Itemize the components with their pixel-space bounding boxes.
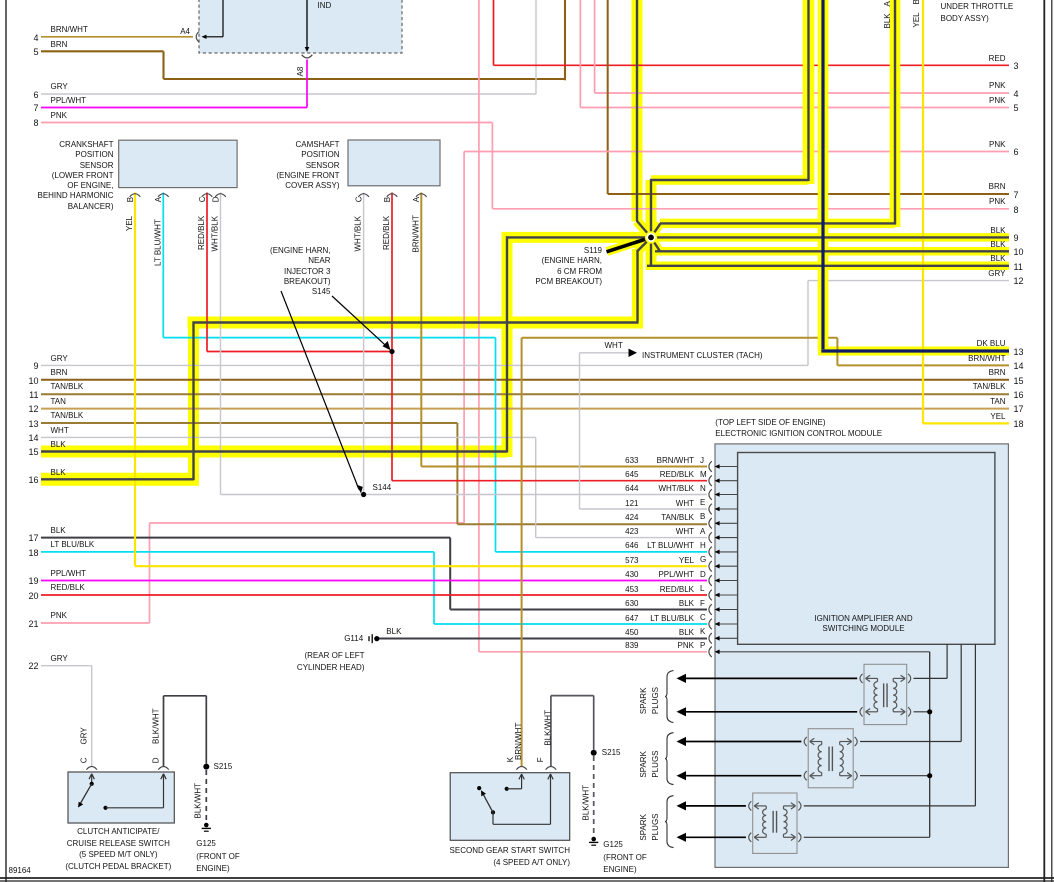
svg-text:BLK/WHT: BLK/WHT bbox=[193, 783, 202, 819]
svg-text:SPARK: SPARK bbox=[639, 813, 648, 840]
svg-text:RED/BLK: RED/BLK bbox=[197, 215, 206, 250]
svg-text:A: A bbox=[883, 1, 892, 7]
svg-text:BLK/WHT: BLK/WHT bbox=[581, 785, 590, 821]
svg-text:A8: A8 bbox=[296, 66, 305, 76]
svg-text:GRY: GRY bbox=[80, 727, 89, 745]
svg-text:B: B bbox=[383, 197, 392, 202]
svg-text:F: F bbox=[536, 757, 545, 762]
svg-text:PLUGS: PLUGS bbox=[651, 687, 660, 714]
svg-text:SPARK: SPARK bbox=[639, 687, 648, 714]
svg-text:A: A bbox=[412, 196, 421, 202]
svg-text:PLUGS: PLUGS bbox=[651, 750, 660, 777]
svg-text:BRN/WHT: BRN/WHT bbox=[411, 215, 420, 252]
svg-text:SPARK: SPARK bbox=[639, 750, 648, 777]
svg-text:C: C bbox=[198, 196, 207, 202]
svg-text:YEL: YEL bbox=[125, 215, 134, 231]
svg-text:BRN/WHT: BRN/WHT bbox=[514, 723, 523, 760]
svg-text:BLK/WHT: BLK/WHT bbox=[151, 708, 160, 744]
svg-text:RED/BLK: RED/BLK bbox=[382, 215, 391, 250]
svg-text:WHT/BLK: WHT/BLK bbox=[354, 215, 363, 251]
svg-text:C: C bbox=[354, 196, 363, 202]
svg-text:LT BLU/WHT: LT BLU/WHT bbox=[153, 219, 162, 266]
svg-text:D: D bbox=[151, 757, 160, 763]
svg-text:BLK: BLK bbox=[883, 13, 892, 29]
svg-text:A: A bbox=[154, 196, 163, 202]
svg-text:C: C bbox=[80, 757, 89, 763]
svg-text:PLUGS: PLUGS bbox=[651, 813, 660, 840]
svg-text:WHT/BLK: WHT/BLK bbox=[211, 215, 220, 251]
svg-text:B: B bbox=[126, 197, 135, 202]
svg-text:B: B bbox=[912, 0, 921, 5]
svg-text:D: D bbox=[211, 196, 220, 202]
svg-text:BLK/WHT: BLK/WHT bbox=[543, 710, 552, 746]
svg-text:YEL: YEL bbox=[912, 12, 921, 28]
